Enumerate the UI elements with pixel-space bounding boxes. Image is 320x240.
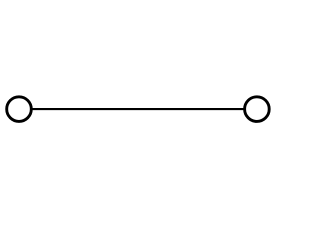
terminal point 1 — [7, 97, 32, 122]
wire — [30, 108, 246, 110]
terminal point 2 — [245, 97, 270, 122]
